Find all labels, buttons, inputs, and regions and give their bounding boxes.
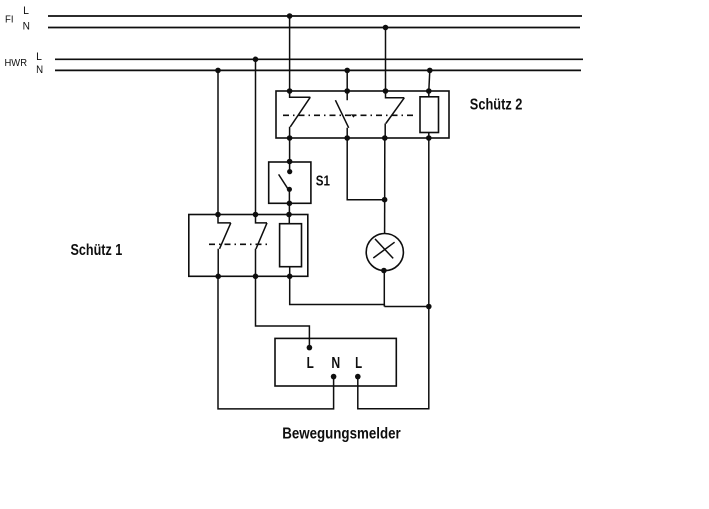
lamp E1 circle [366,234,403,271]
node Schütz 2 bottom pins [287,135,432,141]
contact K1.2 [256,215,268,277]
wire Schütz 1 coil return [290,276,429,306]
node S1 top pin [287,159,293,165]
contactor Schütz 2 outline [276,91,449,138]
wire lamp to node [383,271,385,307]
switch S1 outline [269,162,311,203]
junction dot coil return [426,304,432,310]
wire Schütz 1 contact2 to detector L [256,276,310,347]
motion detector Bewegungsmelder outline [275,338,396,386]
contact K2.2 [335,91,348,138]
svg-text:L: L [36,51,42,63]
bus line FI N [48,27,580,29]
contact K2.3 [385,91,404,138]
wire Schütz 2 coil return [428,138,430,307]
node S1 bottom pin [287,201,293,207]
contact K2.1 [290,91,311,138]
junction dot FI N x385 [383,25,389,31]
terminal pin L left [307,345,313,351]
switch S1 contacts and blade [279,162,290,203]
svg-text:L: L [307,355,314,372]
terminal pin L right [355,374,361,380]
wire Schütz 2 contact3 to lamp [384,138,386,234]
junction dot contact2/contact3 [382,197,388,203]
wire detector N to Schütz 1 contact1 [218,276,334,409]
bus line HWR L [55,58,583,60]
wire Schütz 2 contact2 down [347,138,384,200]
actuation dash-dot line K2 [283,114,417,116]
coil K1 leads [288,215,290,277]
junction dot FI L x289 [287,13,293,19]
svg-text:L: L [23,5,29,17]
svg-text:FI: FI [5,14,14,26]
wire HWR N to Schütz 2 coil [429,70,430,91]
svg-text:Schütz 1: Schütz 1 [71,242,123,259]
node Schütz 1 top pins [215,212,292,218]
junction dot HWR N x218 [215,68,221,74]
svg-text:N: N [331,355,340,372]
actuation dash-dot line K1 [209,243,271,245]
wire S1 to Schütz 1 [288,203,290,214]
svg-text:S1: S1 [316,172,330,189]
contact K1.1 [218,215,231,277]
actuation arrow K2 [351,114,356,117]
contactor Schütz 1 outline [189,215,308,277]
junction dot HWR N x430 [427,68,433,74]
wire FI N to Schütz 2 contact 3 [385,28,387,92]
wire HWR N to Schütz 2 contact 2 [346,70,348,91]
node Schütz 2 top pins [287,88,432,94]
svg-text:HWR: HWR [5,57,28,69]
coil K1 [280,224,302,267]
wire detector L right to coil return [358,307,429,409]
bus line HWR N [55,69,581,71]
node lamp bottom [381,268,387,274]
junction dot HWR L x255 [253,57,259,63]
svg-text:N: N [36,64,43,76]
wire HWR L to Schütz 1 [255,59,257,214]
coil K2 [420,97,439,133]
wire HWR N to Schütz 1 [217,70,219,214]
bus line FI L [48,15,582,17]
wire Schütz 2 contact1 to S1 [289,138,291,162]
lamp E1 cross [373,239,394,259]
coil K2 leads [428,91,430,138]
svg-text:L: L [355,355,362,372]
wire FI L to Schütz 2 contact 1 [289,16,291,91]
switch S1 moving contact dot [287,187,292,192]
junction dot HWR N x347 [344,68,350,74]
svg-text:Schütz 2: Schütz 2 [470,96,523,113]
svg-text:Bewegungsmelder: Bewegungsmelder [282,426,401,443]
terminal pin N [331,374,337,380]
node Schütz 1 bottom pins [215,274,292,280]
switch S1 fixed contact dot [287,169,292,174]
svg-text:N: N [23,20,30,32]
